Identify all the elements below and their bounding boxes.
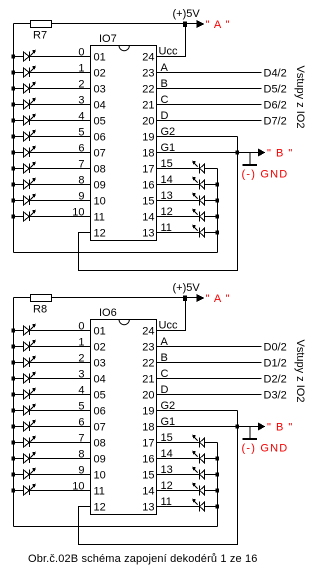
svg-text:18: 18 <box>142 148 154 160</box>
wire: LED to pin 9 <box>30 458 91 460</box>
svg-text:IO7: IO7 <box>99 33 117 45</box>
svg-text:19: 19 <box>142 132 154 144</box>
svg-text:19: 19 <box>142 406 154 418</box>
svg-text:13: 13 <box>142 502 154 514</box>
svg-text:07: 07 <box>94 422 106 434</box>
svg-text:08: 08 <box>94 438 106 450</box>
wire: right cathode bus <box>217 443 219 527</box>
svg-text:01: 01 <box>94 52 106 64</box>
wire: right cathode bus <box>217 169 219 253</box>
svg-text:01: 01 <box>94 326 106 338</box>
ground symbol <box>243 427 258 441</box>
junction on anode bus <box>12 329 16 333</box>
wire: LED to pin 6 <box>30 410 91 412</box>
wire: LED to pin 7 <box>30 152 91 154</box>
LED output 15 (IO6 pin 17) <box>192 435 217 448</box>
wire: bus bottom link <box>14 252 218 254</box>
wire: LED to pin 3 <box>30 88 91 90</box>
svg-text:D: D <box>161 110 169 122</box>
svg-text:11: 11 <box>161 496 172 508</box>
wire: pin 18 enable G1 to node B <box>157 426 259 428</box>
svg-text:12: 12 <box>161 480 173 492</box>
junction on cathode bus <box>216 215 220 219</box>
wire: LED to pin 4 <box>30 378 91 380</box>
svg-text:9: 9 <box>78 191 84 203</box>
LED output 5 (IO6 pin 6) <box>14 404 36 415</box>
node junction +5V / R8 / Ucc <box>183 296 187 302</box>
junction on anode bus <box>12 361 16 365</box>
wire: pin 19 enable G2 <box>157 136 238 138</box>
svg-text:14: 14 <box>142 212 154 224</box>
svg-text:Ucc: Ucc <box>159 320 178 332</box>
LED output 7 (IO7 pin 8) <box>14 162 36 173</box>
junction GND net / G1 <box>236 151 240 155</box>
node junction +5V / R7 / Ucc <box>183 22 187 28</box>
svg-text:D6/2: D6/2 <box>264 100 287 112</box>
svg-text:15: 15 <box>142 470 154 482</box>
svg-text:18: 18 <box>142 422 154 434</box>
wire: LED to pin 2 <box>30 72 91 74</box>
wire: LED to pin 8 <box>30 168 91 170</box>
svg-text:6: 6 <box>78 417 84 429</box>
wire: pin 17 to LED 15 <box>157 442 200 444</box>
wire: left anode bus <box>13 24 15 253</box>
svg-text:05: 05 <box>94 116 106 128</box>
junction on anode bus <box>12 441 16 445</box>
svg-text:15: 15 <box>161 432 173 444</box>
wire: pin 17 to LED 15 <box>157 168 200 170</box>
wire: pin 13 to LED 11 <box>157 232 200 234</box>
junction on anode bus <box>12 409 16 413</box>
svg-text:0: 0 <box>78 321 84 333</box>
node A arrow <box>197 294 205 302</box>
svg-text:10: 10 <box>72 207 84 219</box>
svg-text:07: 07 <box>94 148 106 160</box>
resistor R8 <box>31 295 52 316</box>
svg-text:7: 7 <box>78 159 84 171</box>
svg-text:1: 1 <box>78 337 84 349</box>
svg-text:0: 0 <box>78 47 84 59</box>
svg-text:24: 24 <box>142 52 154 64</box>
svg-text:12: 12 <box>94 502 106 514</box>
wire: LED to pin 1 <box>30 56 91 58</box>
svg-text:Obr.č.02B schéma zapojení deko: Obr.č.02B schéma zapojení dekodérů 1 ze … <box>28 553 258 565</box>
svg-text:06: 06 <box>94 406 106 418</box>
svg-text:3: 3 <box>78 95 84 107</box>
junction on anode bus <box>12 71 16 75</box>
wire: LED to pin 2 <box>30 346 91 348</box>
junction on anode bus <box>12 345 16 349</box>
LED output 8 (IO6 pin 9) <box>14 452 36 463</box>
svg-text:05: 05 <box>94 390 106 402</box>
wire: pin 12 to GND net <box>79 137 238 271</box>
svg-text:23: 23 <box>142 68 154 80</box>
wire: LED to pin 5 <box>30 120 91 122</box>
svg-text:R7: R7 <box>33 30 47 42</box>
wire: pin 23 address input A <box>157 346 262 348</box>
LED output 5 (IO7 pin 6) <box>14 130 36 141</box>
svg-text:20: 20 <box>142 390 154 402</box>
svg-text:G2: G2 <box>161 126 176 138</box>
svg-text:22: 22 <box>142 84 154 96</box>
svg-text:D: D <box>161 384 169 396</box>
LED output 12 (IO7 pin 14) <box>192 209 217 222</box>
svg-text:09: 09 <box>94 180 106 192</box>
junction on anode bus <box>12 393 16 397</box>
svg-text:24: 24 <box>142 326 154 338</box>
svg-text:11: 11 <box>94 212 105 224</box>
svg-text:10: 10 <box>72 481 84 493</box>
wire: LED to pin 4 <box>30 104 91 106</box>
LED output 3 (IO7 pin 4) <box>14 98 36 109</box>
LED output 9 (IO7 pin 10) <box>14 194 36 205</box>
svg-text:14: 14 <box>142 486 154 498</box>
svg-text:04: 04 <box>94 100 106 112</box>
junction on anode bus <box>12 377 16 381</box>
junction on anode bus <box>12 473 16 477</box>
svg-text:B: B <box>161 352 168 364</box>
wire: pin 21 address input C <box>157 104 262 106</box>
svg-text:(+)5V: (+)5V <box>173 8 201 20</box>
wire: pin 20 address input D <box>157 120 262 122</box>
wire: LED to pin 5 <box>30 394 91 396</box>
junction on cathode bus <box>216 183 220 187</box>
svg-text:8: 8 <box>78 175 84 187</box>
svg-text:(-) GND: (-) GND <box>242 443 289 455</box>
LED output 14 (IO6 pin 16) <box>192 451 217 464</box>
wire: LED to pin 7 <box>30 426 91 428</box>
svg-text:16: 16 <box>142 454 154 466</box>
wire: LED to pin 1 <box>30 330 91 332</box>
LED output 12 (IO6 pin 14) <box>192 483 217 496</box>
junction on anode bus <box>12 489 16 493</box>
LED output 1 (IO6 pin 2) <box>14 340 36 351</box>
wire: pin 19 enable G2 <box>157 410 238 412</box>
svg-text:D2/2: D2/2 <box>264 374 287 386</box>
wire: LED to pin 10 <box>30 474 91 476</box>
LED output 6 (IO7 pin 7) <box>14 146 36 157</box>
svg-text:C: C <box>161 368 169 380</box>
svg-text:" B ": " B " <box>267 422 293 434</box>
svg-text:13: 13 <box>161 464 173 476</box>
junction on anode bus <box>12 119 16 123</box>
wire: pin 12 to GND net <box>79 411 238 545</box>
svg-text:A: A <box>161 336 169 348</box>
wire: bus to resistor R8 left <box>14 297 31 299</box>
svg-text:22: 22 <box>142 358 154 370</box>
svg-text:Vstupy z IO2: Vstupy z IO2 <box>294 340 306 403</box>
svg-text:14: 14 <box>161 448 173 460</box>
LED output 4 (IO6 pin 5) <box>14 388 36 399</box>
svg-text:16: 16 <box>142 180 154 192</box>
LED output 0 (IO6 pin 1) <box>14 324 36 335</box>
svg-text:D3/2: D3/2 <box>264 390 287 402</box>
svg-text:02: 02 <box>94 68 106 80</box>
node A arrow <box>197 20 205 28</box>
wire: pin 14 to LED 12 <box>157 490 200 492</box>
LED output 9 (IO6 pin 10) <box>14 468 36 479</box>
svg-text:(+)5V: (+)5V <box>173 282 201 294</box>
wire: pin 15 to LED 13 <box>157 474 200 476</box>
svg-text:15: 15 <box>161 158 173 170</box>
ground symbol <box>243 153 258 167</box>
svg-text:Ucc: Ucc <box>159 46 178 58</box>
junction on anode bus <box>12 135 16 139</box>
IC IO6 74154 decoder body <box>91 307 157 515</box>
junction on anode bus <box>12 199 16 203</box>
node B arrow <box>258 149 266 157</box>
junction on anode bus <box>12 167 16 171</box>
LED output 7 (IO6 pin 8) <box>14 436 36 447</box>
svg-text:5: 5 <box>78 127 84 139</box>
junction on anode bus <box>12 87 16 91</box>
junction GND net / G1 <box>236 425 240 429</box>
svg-text:17: 17 <box>142 164 154 176</box>
LED output 2 (IO7 pin 3) <box>14 82 36 93</box>
junction on anode bus <box>12 151 16 155</box>
LED output 10 (IO6 pin 11) <box>14 484 36 495</box>
svg-text:" B ": " B " <box>267 148 293 160</box>
svg-text:12: 12 <box>161 206 173 218</box>
LED output 2 (IO6 pin 3) <box>14 356 36 367</box>
LED output 0 (IO7 pin 1) <box>14 50 36 61</box>
svg-text:3: 3 <box>78 369 84 381</box>
svg-text:6: 6 <box>78 143 84 155</box>
LED output 3 (IO6 pin 4) <box>14 372 36 383</box>
wire: pin 16 to LED 14 <box>157 458 200 460</box>
svg-text:15: 15 <box>142 196 154 208</box>
svg-text:5: 5 <box>78 401 84 413</box>
svg-text:C: C <box>161 94 169 106</box>
svg-text:G1: G1 <box>161 416 176 428</box>
svg-text:12: 12 <box>94 228 106 240</box>
svg-text:13: 13 <box>142 228 154 240</box>
svg-text:4: 4 <box>78 385 84 397</box>
wire: left anode bus <box>13 298 15 527</box>
svg-text:14: 14 <box>161 174 173 186</box>
svg-text:D7/2: D7/2 <box>264 116 287 128</box>
svg-text:09: 09 <box>94 454 106 466</box>
wire: bus bottom link <box>14 526 218 528</box>
junction on cathode bus <box>216 505 220 509</box>
svg-text:7: 7 <box>78 433 84 445</box>
wire: pin 15 to LED 13 <box>157 200 200 202</box>
LED output 14 (IO7 pin 16) <box>192 177 217 190</box>
junction on cathode bus <box>216 199 220 203</box>
junction on cathode bus <box>216 489 220 493</box>
svg-text:2: 2 <box>78 353 84 365</box>
svg-text:IO6: IO6 <box>99 307 117 319</box>
junction on anode bus <box>12 215 16 219</box>
wire: pin 20 address input D <box>157 394 262 396</box>
LED output 11 (IO6 pin 13) <box>192 499 217 512</box>
svg-text:23: 23 <box>142 342 154 354</box>
svg-text:" A ": " A " <box>206 19 231 31</box>
svg-text:08: 08 <box>94 164 106 176</box>
svg-text:R8: R8 <box>33 304 47 316</box>
svg-text:10: 10 <box>94 196 106 208</box>
svg-text:04: 04 <box>94 374 106 386</box>
junction on cathode bus <box>216 457 220 461</box>
node B arrow <box>258 423 266 431</box>
LED output 6 (IO6 pin 7) <box>14 420 36 431</box>
LED output 11 (IO7 pin 13) <box>192 225 217 238</box>
IC IO7 74154 decoder body <box>91 33 157 241</box>
wire: LED to pin 6 <box>30 136 91 138</box>
svg-text:" A ": " A " <box>206 293 231 305</box>
svg-text:10: 10 <box>94 470 106 482</box>
svg-text:2: 2 <box>78 79 84 91</box>
svg-text:02: 02 <box>94 342 106 354</box>
svg-text:4: 4 <box>78 111 84 123</box>
wire: pin 22 address input B <box>157 88 262 90</box>
svg-text:(-) GND: (-) GND <box>242 169 289 181</box>
junction on anode bus <box>12 103 16 107</box>
LED output 1 (IO7 pin 2) <box>14 66 36 77</box>
svg-text:21: 21 <box>142 374 154 386</box>
junction on anode bus <box>12 55 16 59</box>
wire: resistor R7 to +5V node <box>52 23 198 25</box>
wire: pin 14 to LED 12 <box>157 216 200 218</box>
wire: LED to pin 11 <box>30 490 91 492</box>
wire: resistor R8 to +5V node <box>52 297 198 299</box>
resistor R7 <box>31 21 52 42</box>
wire: LED to pin 8 <box>30 442 91 444</box>
LED output 4 (IO7 pin 5) <box>14 114 36 125</box>
wire: +5V node down to Ucc pin 24 <box>157 298 186 331</box>
svg-text:G2: G2 <box>161 400 176 412</box>
wire: +5V node down to Ucc pin 24 <box>157 24 186 57</box>
svg-text:G1: G1 <box>161 142 176 154</box>
svg-text:1: 1 <box>78 63 84 75</box>
wire: LED to pin 9 <box>30 184 91 186</box>
wire: pin 21 address input C <box>157 378 262 380</box>
svg-text:03: 03 <box>94 84 106 96</box>
junction on anode bus <box>12 425 16 429</box>
svg-text:D4/2: D4/2 <box>264 68 287 80</box>
wire: pin 16 to LED 14 <box>157 184 200 186</box>
svg-text:D0/2: D0/2 <box>264 342 287 354</box>
wire: LED to pin 3 <box>30 362 91 364</box>
junction on anode bus <box>12 457 16 461</box>
wire: LED to pin 10 <box>30 200 91 202</box>
svg-text:9: 9 <box>78 465 84 477</box>
wire: pin 13 to LED 11 <box>157 506 200 508</box>
svg-text:20: 20 <box>142 116 154 128</box>
junction on anode bus <box>12 183 16 187</box>
LED output 15 (IO7 pin 17) <box>192 161 217 174</box>
svg-text:D5/2: D5/2 <box>264 84 287 96</box>
svg-text:21: 21 <box>142 100 154 112</box>
wire: bus to resistor R7 left <box>14 23 31 25</box>
wire: pin 23 address input A <box>157 72 262 74</box>
svg-text:11: 11 <box>161 222 172 234</box>
svg-text:06: 06 <box>94 132 106 144</box>
wire: LED to pin 11 <box>30 216 91 218</box>
svg-text:8: 8 <box>78 449 84 461</box>
svg-text:03: 03 <box>94 358 106 370</box>
LED output 10 (IO7 pin 11) <box>14 210 36 221</box>
svg-text:A: A <box>161 62 169 74</box>
LED output 13 (IO6 pin 15) <box>192 467 217 480</box>
wire: pin 22 address input B <box>157 362 262 364</box>
junction on cathode bus <box>216 231 220 235</box>
svg-text:Vstupy z IO2: Vstupy z IO2 <box>294 66 306 129</box>
junction on cathode bus <box>216 473 220 477</box>
LED output 13 (IO7 pin 15) <box>192 193 217 206</box>
svg-text:11: 11 <box>94 486 105 498</box>
LED output 8 (IO7 pin 9) <box>14 178 36 189</box>
svg-text:B: B <box>161 78 168 90</box>
svg-text:D1/2: D1/2 <box>264 358 287 370</box>
svg-text:17: 17 <box>142 438 154 450</box>
svg-text:13: 13 <box>161 190 173 202</box>
wire: pin 18 enable G1 to node B <box>157 152 259 154</box>
